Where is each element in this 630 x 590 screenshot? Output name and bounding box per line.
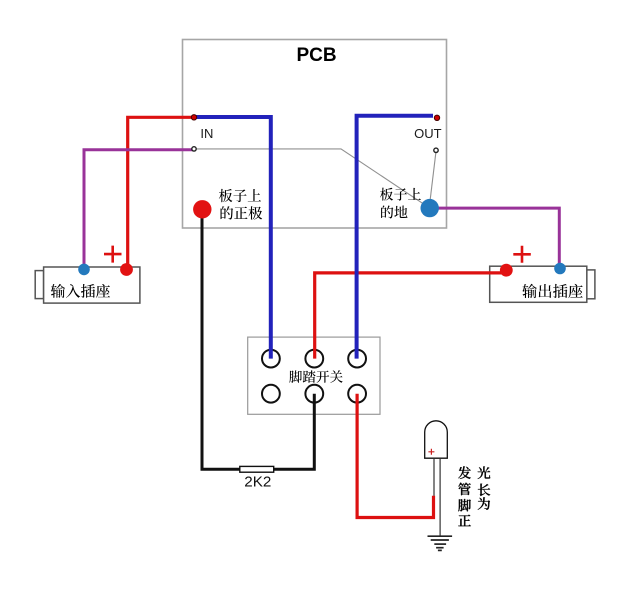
svg-text:OUT: OUT bbox=[414, 126, 442, 141]
pin OUT open circle bbox=[434, 148, 438, 152]
pin IN open circle bbox=[192, 147, 196, 151]
wire blue IN to footswitch bbox=[195, 117, 271, 359]
input jack body bbox=[44, 267, 140, 303]
input jack tab bbox=[35, 271, 43, 299]
gray signal trace OUT to ground pad bbox=[430, 153, 436, 200]
svg-text:PCB: PCB bbox=[296, 45, 336, 66]
wire red footswitch to output jack bbox=[315, 273, 507, 359]
wire black resistor to footswitch bbox=[274, 394, 315, 470]
output jack body bbox=[490, 266, 587, 302]
output jack plus mark bbox=[513, 246, 531, 263]
label 板子上的地 bbox=[380, 188, 421, 201]
svg-text:IN: IN bbox=[200, 126, 213, 141]
input jack tip dot (red) bbox=[120, 263, 133, 276]
pad OUT red dot bbox=[434, 115, 439, 120]
PCB board outline bbox=[183, 40, 447, 229]
svg-text:2K2: 2K2 bbox=[244, 474, 271, 491]
LED anode leg bbox=[433, 459, 435, 496]
board ground pad (big blue dot) bbox=[421, 199, 439, 217]
wire purple input jack to IN ground bbox=[84, 150, 194, 270]
gray signal trace IN to ground pad bbox=[196, 149, 430, 208]
footswitch lug top-right bbox=[348, 350, 366, 368]
output jack tip dot (red) bbox=[500, 264, 513, 277]
wire red footswitch to LED anode bbox=[357, 394, 433, 518]
footswitch lug bottom-left bbox=[262, 385, 280, 403]
LED cathode leg bbox=[439, 459, 441, 536]
pad IN red dot bbox=[191, 115, 196, 120]
board positive pad (big red dot) bbox=[193, 200, 211, 218]
wire blue footswitch to OUT bbox=[357, 116, 433, 359]
footswitch lug bottom-middle bbox=[305, 385, 323, 403]
input jack plus mark bbox=[104, 246, 122, 263]
label 板子上的正极 bbox=[219, 189, 261, 202]
wire purple ground pad to output jack bbox=[430, 208, 560, 268]
input jack label 输入插座 bbox=[51, 284, 110, 298]
wire red input jack to IN bbox=[128, 117, 194, 269]
output jack tab bbox=[587, 270, 595, 299]
footswitch lug top-left bbox=[262, 350, 280, 368]
footswitch lug bottom-right bbox=[348, 385, 366, 403]
LED D1 body bbox=[425, 421, 448, 458]
resistor R1 body bbox=[240, 466, 274, 472]
footswitch lug top-middle bbox=[305, 350, 323, 368]
output jack sleeve dot (blue) bbox=[554, 263, 566, 275]
LED plus mark bbox=[428, 449, 434, 455]
footswitch label 脚踏开关 bbox=[289, 370, 342, 383]
footswitch body bbox=[248, 337, 380, 414]
vertical caption 发光管长脚为正 bbox=[458, 466, 490, 526]
wire black positive to resistor bbox=[202, 209, 240, 469]
ground symbol bbox=[428, 536, 453, 550]
output jack label 输出插座 bbox=[522, 284, 582, 298]
input jack sleeve dot (blue) bbox=[78, 264, 90, 276]
